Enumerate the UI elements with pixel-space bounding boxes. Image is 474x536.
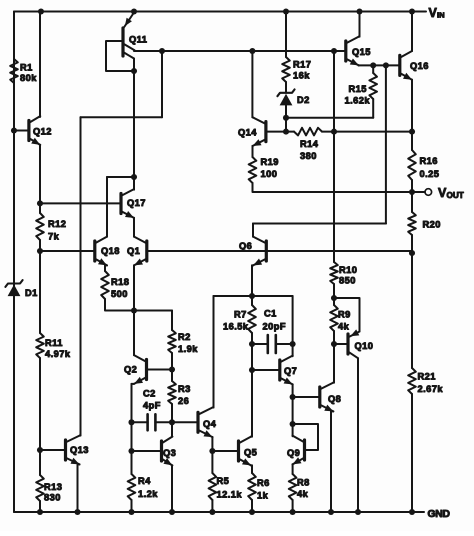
svg-text:1.62k: 1.62k xyxy=(345,96,371,106)
svg-text:830: 830 xyxy=(44,493,61,503)
svg-text:20pF: 20pF xyxy=(263,322,287,332)
svg-text:C2: C2 xyxy=(143,389,156,399)
svg-text:R2: R2 xyxy=(178,332,191,342)
svg-text:Q15: Q15 xyxy=(352,47,371,57)
svg-text:4.97k: 4.97k xyxy=(45,349,71,359)
svg-text:R12: R12 xyxy=(48,219,66,229)
svg-text:850: 850 xyxy=(339,276,356,286)
svg-text:R21: R21 xyxy=(418,372,436,382)
svg-text:500: 500 xyxy=(111,289,128,299)
svg-text:GND: GND xyxy=(428,509,450,520)
svg-text:D2: D2 xyxy=(297,95,310,105)
svg-text:1.9k: 1.9k xyxy=(178,344,198,354)
svg-text:Q13: Q13 xyxy=(70,445,89,455)
svg-text:Q4: Q4 xyxy=(203,419,217,429)
svg-text:R8: R8 xyxy=(297,478,310,488)
svg-text:Q2: Q2 xyxy=(124,365,137,375)
svg-text:0.25: 0.25 xyxy=(420,169,440,179)
svg-text:7k: 7k xyxy=(48,232,60,242)
svg-text:4k: 4k xyxy=(338,322,350,332)
svg-text:R18: R18 xyxy=(111,277,129,287)
svg-text:Q5: Q5 xyxy=(244,448,257,458)
svg-text:4k: 4k xyxy=(297,489,309,499)
svg-text:R17: R17 xyxy=(293,60,311,70)
svg-text:R14: R14 xyxy=(300,139,319,149)
svg-text:R20: R20 xyxy=(423,220,441,230)
svg-text:Q8: Q8 xyxy=(328,394,341,404)
svg-text:Q12: Q12 xyxy=(33,127,52,137)
svg-text:R5: R5 xyxy=(217,476,230,486)
svg-text:1.2k: 1.2k xyxy=(138,489,158,499)
svg-text:Q14: Q14 xyxy=(238,128,257,138)
svg-text:D1: D1 xyxy=(25,288,38,298)
svg-text:Q10: Q10 xyxy=(355,341,374,351)
svg-text:R13: R13 xyxy=(44,482,62,492)
svg-text:IN: IN xyxy=(437,11,445,20)
svg-text:Q3: Q3 xyxy=(163,448,176,458)
svg-text:Q1: Q1 xyxy=(127,246,140,256)
svg-text:R1: R1 xyxy=(20,63,33,73)
svg-text:R16: R16 xyxy=(420,156,438,166)
svg-text:OUT: OUT xyxy=(447,191,464,200)
svg-text:R15: R15 xyxy=(349,84,367,94)
svg-text:R3: R3 xyxy=(178,384,191,394)
svg-text:16.5k: 16.5k xyxy=(223,322,249,332)
svg-text:Q11: Q11 xyxy=(129,35,147,45)
svg-text:100: 100 xyxy=(261,169,278,179)
svg-text:16k: 16k xyxy=(293,71,310,81)
svg-text:26: 26 xyxy=(178,396,189,406)
svg-text:2.67k: 2.67k xyxy=(418,384,444,394)
svg-text:R19: R19 xyxy=(261,157,279,167)
svg-text:4pF: 4pF xyxy=(143,401,161,411)
svg-text:80k: 80k xyxy=(20,73,37,83)
svg-text:Q6: Q6 xyxy=(239,241,252,251)
svg-text:R9: R9 xyxy=(338,310,351,320)
svg-text:Q18: Q18 xyxy=(101,246,120,256)
svg-text:380: 380 xyxy=(300,151,317,161)
svg-text:R4: R4 xyxy=(138,476,151,486)
svg-text:Q16: Q16 xyxy=(410,61,429,71)
svg-text:Q9: Q9 xyxy=(287,448,300,458)
svg-text:1k: 1k xyxy=(257,491,269,501)
svg-text:R6: R6 xyxy=(257,478,270,488)
svg-text:R10: R10 xyxy=(339,265,357,275)
svg-text:R7: R7 xyxy=(234,310,247,320)
svg-text:Q7: Q7 xyxy=(284,366,297,376)
svg-text:12.1k: 12.1k xyxy=(217,490,243,500)
svg-text:C1: C1 xyxy=(264,309,277,319)
svg-text:Q17: Q17 xyxy=(127,198,146,208)
svg-text:R11: R11 xyxy=(45,338,63,348)
